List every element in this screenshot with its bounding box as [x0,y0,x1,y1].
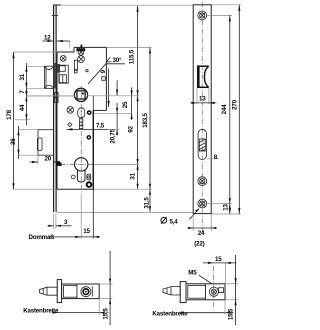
svg-text:183,5: 183,5 [142,112,149,127]
svg-text:Kastenbreite: Kastenbreite [152,310,188,317]
svg-text:15,5: 15,5 [102,308,109,320]
latch cutout [197,66,209,89]
capsule element [78,108,85,118]
Kastenbreite dim right [152,300,232,318]
bottom right side view: case box [186,284,225,300]
bottom left side view: case box [62,284,100,299]
svg-text:Dommaß: Dommaß [29,234,55,241]
three stacked squares [79,119,82,129]
svg-text:92: 92 [128,126,135,133]
latch bolt side view [40,287,58,295]
deadbolt (front view) [37,130,53,156]
svg-text:36: 36 [10,138,17,145]
svg-text:13: 13 [199,96,206,103]
dim 270 [211,5,241,214]
plate centerline [201,2,203,232]
svg-text:15: 15 [83,228,90,235]
latch guide box inside case [54,63,69,88]
reference line B and 25 dim [93,88,132,121]
projection line bottom of faceplates [57,211,193,213]
svg-text:31: 31 [130,172,137,179]
dim 15,5 right view [225,255,238,325]
svg-text:178: 178 [6,109,13,119]
leader 30 degrees [88,57,125,84]
svg-text:30°: 30° [113,57,122,64]
right dim column 183,5 / 31,5 [93,48,151,212]
screw below tab [78,56,85,63]
plate top screw [198,11,207,20]
svg-text:115,5: 115,5 [129,49,136,64]
dim 13 latch cutout [191,88,217,104]
follower nut (square in circle) [74,88,87,101]
dim 36 [10,126,38,159]
svg-text:270: 270 [232,99,239,109]
svg-text:15,5: 15,5 [228,308,235,320]
cylinder screw in case [81,287,91,297]
plate lower screw 1 [198,177,207,186]
svg-text:44: 44 [19,104,26,111]
slot and small square [74,60,88,73]
dim 12 top [43,35,70,48]
label 8 slot [207,154,219,161]
latch bolt right side view [163,287,180,295]
black ring screw bottom right of cylinder [86,181,93,188]
dim 24 [188,214,217,237]
svg-text:244: 244 [221,104,228,114]
deadbolt slot with hatched insert [198,129,206,159]
dim 178 left column [6,52,57,189]
svg-text:20: 20 [45,156,52,163]
mid screw with cross [67,107,74,114]
svg-text:M5: M5 [188,270,197,277]
dim 20,75 [110,103,119,144]
dim 7,5 leader [67,122,120,130]
cylinder axis extension [93,163,139,165]
faceplate (main view, edge-on) [52,5,61,212]
striking plate outline (right view) [193,5,211,214]
svg-text:7,5: 7,5 [96,122,105,129]
follower axis extension [26,95,75,97]
black screw lower [87,135,92,140]
svg-text:13: 13 [222,204,229,211]
plate lower screw 2 [198,199,207,208]
small circle left of cylinder [71,175,75,179]
M5 label with leader [188,270,211,284]
Kastenbreite dim left [23,299,105,315]
dim 15,5 left view [99,251,112,325]
lock case outline [57,47,106,189]
svg-text:20,75: 20,75 [110,128,117,143]
diameter 5,4 label [161,208,200,226]
dim column 244 / 13 [207,15,232,214]
right dim column 115,5 / 92 / 31 [128,6,139,189]
latch bolt (front view) [44,66,53,88]
case inner divider [188,284,224,300]
case top screw left [60,56,66,62]
small diamond [68,123,72,127]
dim column 31 7 44 [15,63,75,125]
M5 axis centerline [213,266,215,308]
dim 20 deadbolt [30,155,61,164]
svg-text:31: 31 [19,73,26,80]
bottom left side view: faceplate bar [57,280,61,303]
M5 screw in case [209,287,218,296]
plate fixing tabs [54,93,58,97]
svg-text:15: 15 [215,256,222,263]
bottom right side view: faceplate bar [180,282,186,303]
svg-text:24: 24 [198,230,205,237]
adjusting cylinder on case top [76,45,85,56]
small circle right of capsule [87,110,92,115]
dim 15 right view [203,256,236,284]
svg-text:25: 25 [122,101,129,108]
dommass extension lines [80,195,82,239]
svg-text:5,4: 5,4 [170,219,179,226]
svg-text:31,5: 31,5 [143,197,150,209]
Dommass label and dim 15 [29,228,100,241]
svg-text:(22): (22) [194,240,204,247]
euro profile cylinder hole [61,86,94,195]
dim 3 faceplate thickness [48,214,72,230]
projection line top [54,4,193,6]
small square right of cylinder [87,174,91,180]
square 9 symbol with leaders [100,69,118,107]
case inner lines [64,284,93,299]
